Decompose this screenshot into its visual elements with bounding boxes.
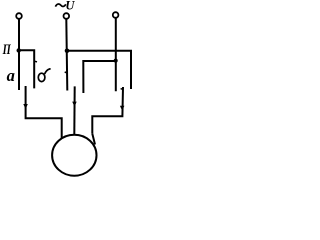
svg-text:П: П: [2, 42, 12, 58]
svg-text:U: U: [65, 0, 75, 12]
svg-text:a: a: [7, 66, 15, 85]
